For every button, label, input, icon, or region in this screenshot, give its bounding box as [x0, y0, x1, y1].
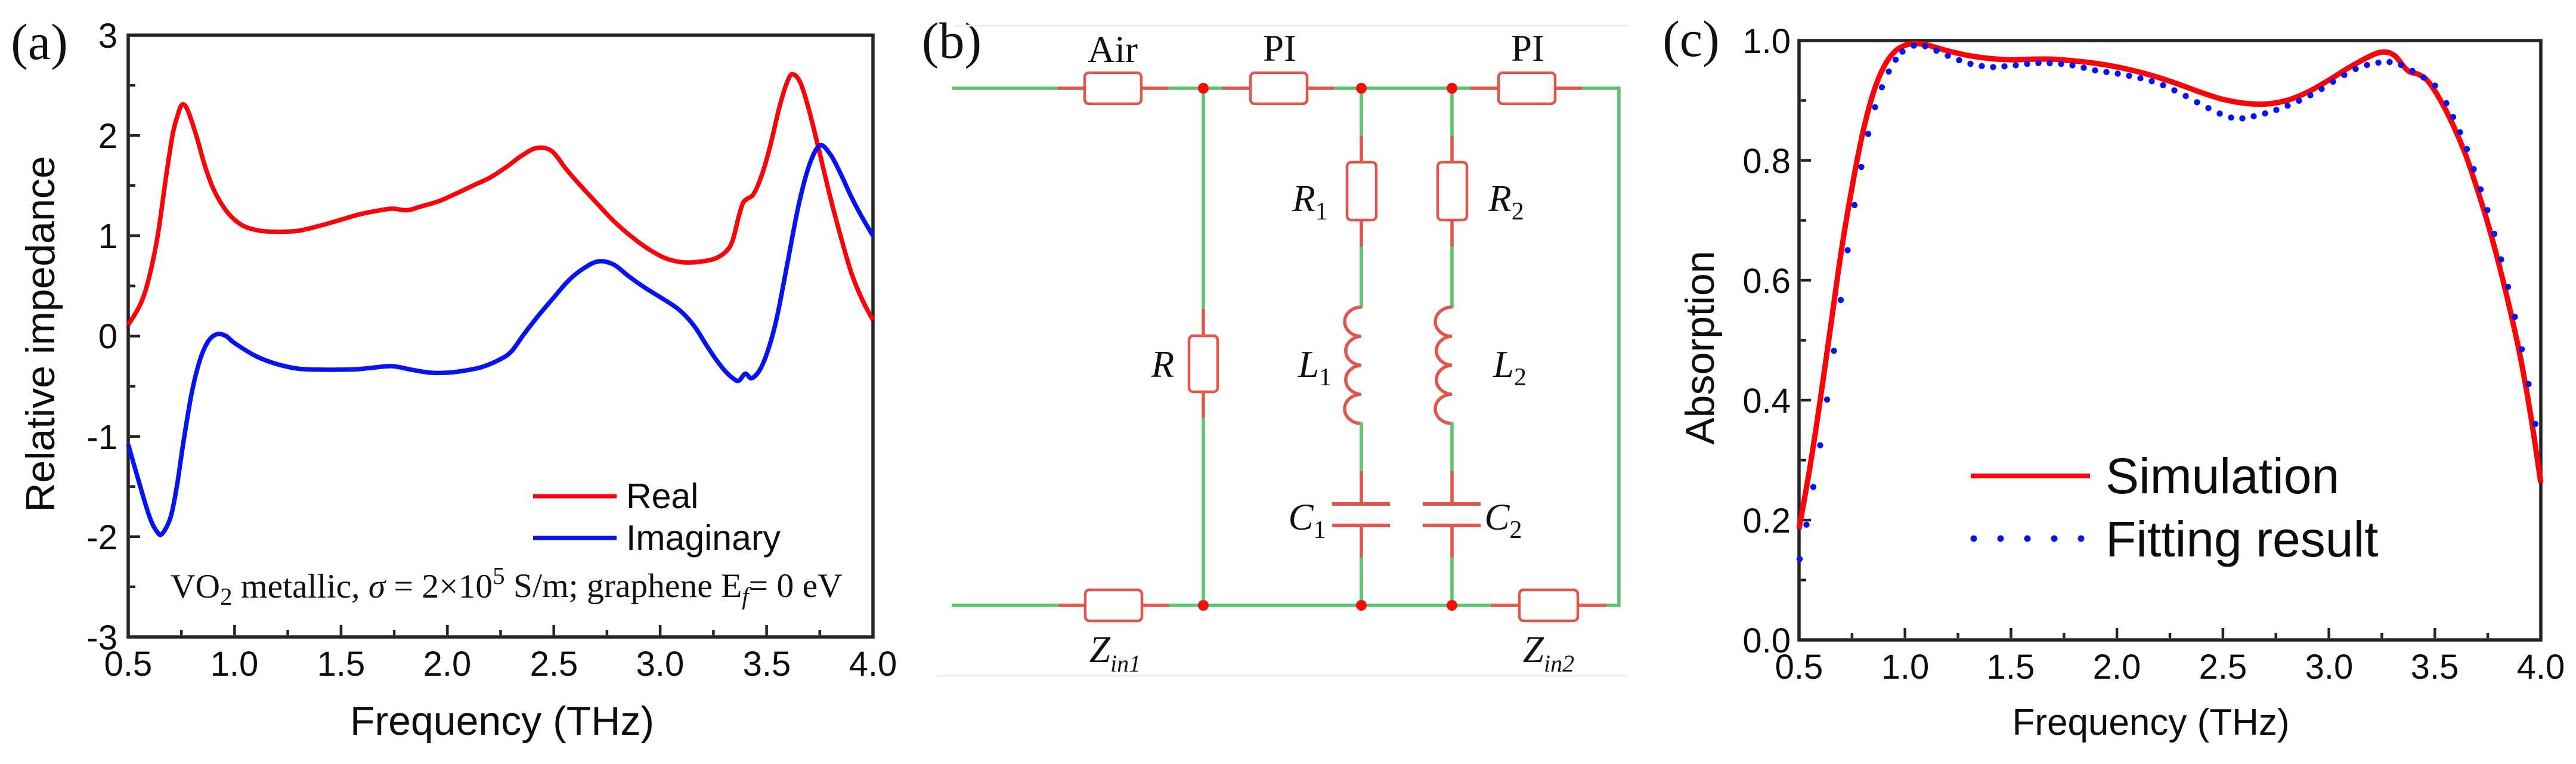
svg-text:2.5: 2.5	[530, 645, 578, 683]
wire bottom bus: node N6 to Zin2	[1451, 604, 1492, 607]
capacitor C1	[1288, 471, 1390, 558]
svg-text:-1: -1	[86, 418, 117, 457]
wire branch 1: R1 to L1	[1360, 246, 1363, 308]
inductor L1	[1298, 307, 1361, 423]
wire bottom bus left segment	[952, 604, 1060, 607]
capacitor C2	[1423, 471, 1522, 558]
wire branch 1: C1 to bottom bus	[1360, 557, 1363, 605]
junction node N2	[1356, 83, 1367, 94]
resistor PI (second)	[1470, 27, 1583, 104]
svg-text:1.5: 1.5	[1987, 648, 2035, 686]
svg-text:Frequency (THz): Frequency (THz)	[350, 698, 654, 744]
faint frame line bottom	[937, 675, 1626, 677]
svg-text:VO2 metallic, σ = 2×105 S/m; g: VO2 metallic, σ = 2×105 S/m; graphene Ef…	[171, 562, 843, 610]
curve Imaginary (blue)	[128, 145, 873, 534]
svg-text:Relative impedance: Relative impedance	[18, 156, 63, 512]
inductor L2	[1435, 307, 1527, 423]
resistor R1	[1292, 136, 1376, 248]
svg-text:3.0: 3.0	[2305, 648, 2354, 686]
svg-text:0.5: 0.5	[1775, 648, 1823, 686]
impedance Zin2	[1491, 590, 1608, 677]
svg-text:Air: Air	[1088, 29, 1138, 70]
wire top bus: node N1 to PI	[1202, 86, 1224, 90]
svg-text:0.5: 0.5	[104, 645, 153, 683]
svg-text:3.0: 3.0	[636, 645, 685, 683]
wire branch 1: node N2 down	[1360, 88, 1363, 137]
svg-text:2.5: 2.5	[2199, 648, 2247, 686]
resistor PI (first)	[1222, 27, 1335, 104]
svg-text:0.8: 0.8	[1742, 142, 1791, 181]
svg-text:Imaginary: Imaginary	[626, 518, 781, 558]
wire top bus: Air to node N1	[1168, 86, 1205, 90]
svg-text:3.5: 3.5	[743, 645, 791, 683]
axes frame panel c	[1799, 41, 2541, 640]
wire branch 2: C2 to bottom bus	[1450, 557, 1454, 605]
svg-text:Fitting result: Fitting result	[2106, 511, 2379, 567]
wire branch 2: R2 to L2	[1450, 246, 1454, 308]
svg-text:0: 0	[98, 317, 117, 356]
svg-text:1.0: 1.0	[1742, 22, 1791, 61]
svg-text:0.4: 0.4	[1742, 382, 1791, 420]
wire top bus: PI to node N2	[1334, 86, 1363, 90]
svg-text:(c): (c)	[1662, 10, 1719, 67]
wire shunt branch R: R to bottom bus	[1202, 417, 1205, 605]
resistor Air	[1058, 29, 1169, 104]
svg-text:(a): (a)	[11, 13, 67, 70]
wire branch 2: node N3 down	[1450, 88, 1454, 137]
svg-text:R: R	[1151, 344, 1174, 385]
wire shunt branch R: node N1 down	[1202, 88, 1205, 310]
svg-text:0.6: 0.6	[1742, 262, 1791, 301]
wire bottom bus: node N4 to node N5	[1202, 604, 1363, 607]
svg-text:4.0: 4.0	[2517, 648, 2565, 686]
legend panel c	[1971, 474, 2090, 478]
junction node N5	[1356, 600, 1367, 611]
svg-text:2: 2	[98, 117, 117, 156]
svg-text:(b): (b)	[922, 12, 982, 69]
svg-text:-2: -2	[86, 518, 117, 557]
wire bottom bus right segment	[1606, 604, 1621, 607]
svg-text:3: 3	[98, 17, 117, 55]
svg-text:Frequency (THz): Frequency (THz)	[2012, 702, 2289, 743]
svg-text:4.0: 4.0	[849, 645, 897, 683]
svg-text:PI: PI	[1263, 27, 1296, 69]
svg-text:2.0: 2.0	[423, 645, 472, 683]
junction node N1	[1198, 83, 1209, 94]
junction node N4	[1198, 600, 1209, 611]
svg-text:0.2: 0.2	[1742, 502, 1791, 540]
wire top bus left segment	[952, 86, 1059, 90]
curve Fitting result (blue dotted)	[1797, 42, 2538, 562]
curve Simulation (red)	[1799, 44, 2541, 529]
resistor R2	[1438, 136, 1524, 248]
svg-text:PI: PI	[1511, 27, 1544, 69]
curve Real (red)	[128, 74, 873, 325]
wire right vertical return	[1617, 87, 1621, 607]
legend panel a	[533, 494, 617, 499]
impedance Zin1	[1058, 590, 1170, 677]
junction node N3	[1447, 83, 1457, 94]
wire top bus: node N3 to PI	[1451, 86, 1472, 90]
svg-text:Real: Real	[626, 477, 698, 516]
wire branch 2: L2 to C2	[1450, 422, 1454, 472]
faint frame line top	[954, 25, 1629, 27]
wire branch 1: L1 to C1	[1360, 422, 1363, 472]
wire bottom bus: node N5 to node N6	[1360, 604, 1453, 607]
svg-text:2.0: 2.0	[2093, 648, 2141, 686]
wire bottom bus: Zin1 to node N4	[1169, 604, 1205, 607]
junction node N6	[1447, 600, 1457, 611]
wire top bus: node N2 to node N3	[1360, 86, 1453, 90]
svg-text:Simulation: Simulation	[2106, 448, 2339, 504]
axes frame panel a	[128, 35, 873, 637]
svg-text:1.0: 1.0	[210, 645, 259, 683]
wire top bus right segment	[1582, 86, 1621, 90]
svg-text:1: 1	[98, 217, 117, 256]
svg-text:3.5: 3.5	[2411, 648, 2459, 686]
svg-text:1.5: 1.5	[317, 645, 366, 683]
resistor R	[1151, 309, 1218, 419]
svg-text:Absorption: Absorption	[1677, 250, 1723, 444]
svg-text:1.0: 1.0	[1881, 648, 1930, 686]
